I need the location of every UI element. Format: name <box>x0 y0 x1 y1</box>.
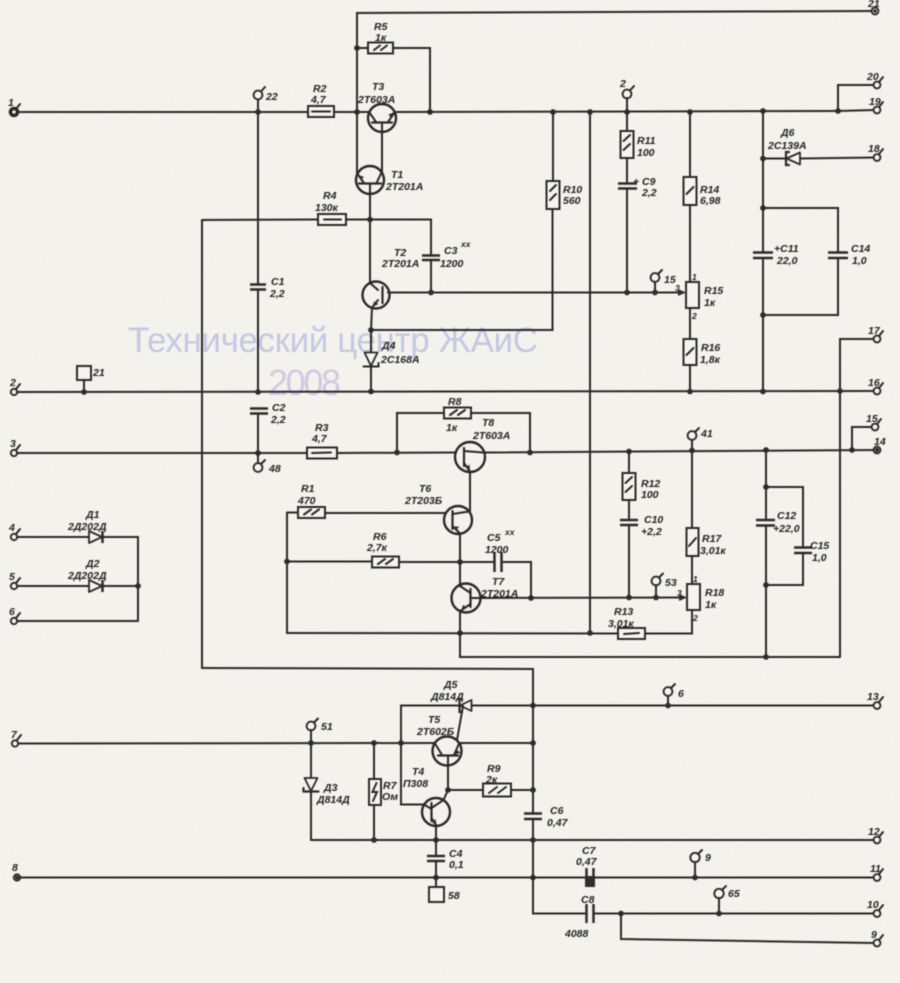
wire R3 to T8 <box>337 452 456 455</box>
pin 16 <box>868 377 883 394</box>
node junction bus1/C1 column <box>255 109 261 115</box>
resistor R11 <box>621 112 656 159</box>
svg-text:xx: xx <box>504 527 516 537</box>
wire C5 right riser <box>502 562 532 598</box>
svg-text:4,7: 4,7 <box>311 433 328 445</box>
transistor T7 2Т201А <box>452 576 519 613</box>
wire R14 to R15 <box>689 205 691 282</box>
svg-text:470: 470 <box>297 495 316 507</box>
node junction bus14 / R17 column <box>689 448 695 454</box>
transistor T6 2Т203Б <box>404 483 472 534</box>
svg-text:15: 15 <box>664 274 676 286</box>
pin 7 <box>11 729 21 747</box>
svg-text:Т5: Т5 <box>428 714 440 726</box>
pin 9 <box>871 929 883 946</box>
wire emitter bus657 <box>460 656 840 658</box>
wire T2 base wire y292 <box>388 292 683 294</box>
wire column x357 top <box>357 11 875 112</box>
svg-text:1,0: 1,0 <box>852 255 867 267</box>
wire R7 bottom <box>373 805 375 840</box>
svg-text:2к: 2к <box>485 774 498 786</box>
svg-text:3: 3 <box>10 438 16 450</box>
node junction C12 top branch <box>763 484 769 490</box>
svg-text:R15: R15 <box>704 285 723 297</box>
node junction T4 emitter / pin12 line <box>433 837 439 843</box>
wire pins 19 20 fork <box>838 85 874 111</box>
node junction R9 wire / x533 column <box>530 787 536 793</box>
pin 8 <box>12 862 20 881</box>
svg-text:17: 17 <box>868 325 881 337</box>
wire pin15 riser <box>852 427 872 450</box>
wire T4 emitter <box>435 826 437 841</box>
svg-text:2,2: 2,2 <box>270 414 286 426</box>
svg-text:2,7к: 2,7к <box>366 542 388 554</box>
node junction terminal9 / bus877 <box>692 875 698 881</box>
node junction R7 column / pin7 wire <box>371 740 377 746</box>
capacitor C11 <box>753 159 799 392</box>
wire R9 to column <box>511 789 533 791</box>
resistor R1 <box>287 483 325 518</box>
wire Д6 column upper <box>762 111 764 159</box>
wire bus877 left <box>20 877 586 879</box>
resistor R16 <box>684 308 721 392</box>
node junction C9 column / wiper wire <box>624 290 630 296</box>
wire diode block column <box>137 537 139 621</box>
node junction bus14 / C12 column <box>763 447 769 453</box>
svg-text:С12: С12 <box>777 510 796 522</box>
pin 20 <box>866 71 883 88</box>
node junction R5 column / bus1 <box>354 109 360 115</box>
svg-text:Ом: Ом <box>382 791 398 803</box>
pin 19 <box>869 96 883 113</box>
wire R2 to T3 <box>334 111 369 113</box>
svg-text:Д3: Д3 <box>323 782 338 794</box>
svg-text:22: 22 <box>265 91 278 103</box>
node junction bus1 / R11 column <box>624 109 630 115</box>
svg-text:4,7: 4,7 <box>310 94 327 106</box>
svg-text:Технический центр ЖАиС: Технический центр ЖАиС <box>128 321 538 360</box>
wire T2 emitter down <box>371 308 372 331</box>
resistor R10 <box>547 112 583 209</box>
wire pin7 to T5 base <box>18 742 435 745</box>
svg-text:2Д202Д: 2Д202Д <box>67 521 107 533</box>
node junction terminal15 / wiper wire <box>652 290 658 296</box>
wire line913 right <box>594 913 875 915</box>
node junction T2 emitter / R10 return wire <box>368 327 374 333</box>
svg-text:2,2: 2,2 <box>641 187 657 199</box>
svg-text:Т6: Т6 <box>419 483 431 495</box>
wire T8 emitter to T6 <box>469 472 471 511</box>
svg-text:Д6: Д6 <box>780 127 795 139</box>
svg-text:6: 6 <box>9 606 15 618</box>
resistor R4 <box>202 190 346 225</box>
pin 12 <box>868 826 883 843</box>
wire pin9 line <box>621 914 874 944</box>
node junction pin17 column / bus16 <box>837 388 843 394</box>
svg-text:2Т603А: 2Т603А <box>472 430 510 442</box>
resistor R17 <box>687 451 727 585</box>
pin 15 <box>866 413 881 430</box>
svg-text:+2,2: +2,2 <box>641 526 662 538</box>
terminal 22 <box>254 87 278 112</box>
svg-text:4088: 4088 <box>564 928 589 940</box>
node junction C5 riser / T7 wire <box>528 595 534 601</box>
resistor R3 <box>307 422 337 459</box>
svg-text:R16: R16 <box>701 342 720 354</box>
wire bus1 to pin 19 <box>838 110 874 111</box>
pin 14 <box>874 436 886 453</box>
svg-text:1к: 1к <box>705 599 717 611</box>
capacitor C2 <box>250 402 286 453</box>
node junction R8 right riser / collector wire <box>527 450 533 456</box>
node junction bus14 / R12 column <box>626 449 632 455</box>
svg-text:5: 5 <box>9 571 15 583</box>
svg-text:2: 2 <box>619 78 626 90</box>
capacitor C5 <box>485 527 516 572</box>
node junction C11 top <box>760 205 766 211</box>
wire pin12 line <box>311 839 875 841</box>
resistor R13 <box>608 606 645 639</box>
node junction bus1 / Д6 column <box>760 108 766 114</box>
transistor T1 2Т201А <box>356 166 423 194</box>
resistor R6 <box>287 531 399 568</box>
potentiometer R18 <box>677 574 724 623</box>
pin 13 <box>867 691 883 709</box>
svg-text:1200: 1200 <box>440 258 464 270</box>
node junction C4 / bus877 <box>433 875 439 881</box>
node junction Д3 column / pin7 wire <box>308 740 314 746</box>
svg-text:+22,0: +22,0 <box>773 523 800 535</box>
node junction x590 column / bus633 <box>587 630 593 636</box>
node junction line913 / pin9 drop <box>618 911 624 917</box>
wire T1 collector column <box>356 112 358 175</box>
svg-text:2: 2 <box>691 311 697 321</box>
node junction C12 bottom <box>763 582 769 588</box>
svg-text:2Т203Б: 2Т203Б <box>404 495 443 507</box>
node junction fork <box>835 108 841 114</box>
svg-text:4: 4 <box>8 522 15 534</box>
svg-text:51: 51 <box>321 721 333 733</box>
svg-text:С6: С6 <box>550 805 564 817</box>
svg-text:Т1: Т1 <box>391 169 403 181</box>
wire T4 base riser <box>401 743 424 805</box>
node junction C11 column / bus16 <box>760 389 766 395</box>
svg-text:9: 9 <box>705 852 711 864</box>
wire pin17 column <box>840 339 874 657</box>
wire column x202 down <box>201 220 203 668</box>
transistor T3 2Т603А <box>357 81 396 173</box>
wire R7 column <box>373 743 375 779</box>
wire x533 column section3 <box>532 706 534 814</box>
terminal 53 <box>652 574 677 598</box>
node junction T5 wire / x533 column <box>530 740 536 746</box>
pin 6 <box>9 606 20 624</box>
wire T1 emitter to R4 wire <box>369 194 371 220</box>
capacitor C3 <box>422 239 472 270</box>
svg-text:Т8: Т8 <box>482 417 494 429</box>
capacitor C9 <box>618 158 657 293</box>
svg-text:1: 1 <box>8 97 14 109</box>
svg-text:12: 12 <box>868 826 880 838</box>
svg-text:19: 19 <box>869 96 881 108</box>
capacitor C15 <box>766 487 829 585</box>
pin 21 <box>867 0 880 14</box>
svg-text:Д814Д: Д814Д <box>316 794 350 806</box>
svg-text:16: 16 <box>868 377 880 389</box>
node junction Д6 tap <box>760 156 766 162</box>
capacitor C12 <box>756 450 800 657</box>
resistor R9 <box>448 763 511 797</box>
terminal 21 square <box>77 366 105 395</box>
svg-text:2Т201А: 2Т201А <box>381 258 419 270</box>
pin 10 <box>867 899 883 917</box>
svg-text:xx: xx <box>460 239 472 249</box>
resistor R2 <box>308 83 334 117</box>
wire bus633 <box>287 632 618 635</box>
node junction Д2 / column <box>135 583 141 589</box>
node junction bus1 / R14 column <box>687 109 693 115</box>
wire R6 to C5 <box>399 561 494 563</box>
terminal 51 <box>307 719 333 744</box>
pin 17 <box>868 325 883 342</box>
svg-text:100: 100 <box>641 489 659 501</box>
node junction C2 / bus3 <box>255 450 261 456</box>
node junction terminal6 / wire <box>665 703 671 709</box>
svg-text:58: 58 <box>448 890 460 902</box>
terminal 65 <box>714 886 740 914</box>
svg-text:53: 53 <box>665 577 677 589</box>
node junction R8 left riser / bus3 <box>394 450 400 456</box>
node junction C1 column / bus16 <box>255 389 261 395</box>
svg-text:Д4: Д4 <box>381 340 396 352</box>
node junction T1 emitter / R4 wire <box>367 217 373 223</box>
node junction R5 riser / bus1 <box>427 109 433 115</box>
node junction C3 / base wire <box>428 290 434 296</box>
pin 11 <box>870 863 883 881</box>
svg-text:R8: R8 <box>448 396 462 408</box>
transistor T4 П308 <box>403 766 450 826</box>
svg-text:11: 11 <box>870 863 881 875</box>
wire T7 emitter down <box>459 611 461 658</box>
wire x533 column below C6 <box>532 819 534 878</box>
wire R1 to T6 base <box>325 512 446 514</box>
svg-text:2С168А: 2С168А <box>380 354 420 366</box>
wire T6 emitter to T7 <box>459 534 461 586</box>
svg-text:1: 1 <box>692 272 697 282</box>
wire R4 right to C3 column <box>346 220 431 256</box>
svg-text:1к: 1к <box>704 297 716 309</box>
svg-text:2,2: 2,2 <box>269 288 285 300</box>
svg-text:2: 2 <box>692 613 698 623</box>
node junction T7 emitter / bus633 <box>457 630 463 636</box>
resistor R5 <box>357 21 393 54</box>
svg-text:13: 13 <box>867 691 879 703</box>
resistor R8 <box>397 396 530 453</box>
wire T5 emitter down <box>447 766 449 791</box>
svg-text:2Т603А: 2Т603А <box>357 94 395 106</box>
svg-text:2С139А: 2С139А <box>767 140 807 152</box>
svg-text:R11: R11 <box>637 135 656 147</box>
svg-text:2Т201А: 2Т201А <box>385 181 423 193</box>
node junction bus657 / C12 column <box>763 654 769 660</box>
resistor R7 <box>369 779 398 805</box>
wire section3 feed y668 <box>202 668 533 706</box>
svg-text:С15: С15 <box>810 540 829 552</box>
svg-text:+С11: +С11 <box>774 243 799 255</box>
capacitor C10 <box>620 500 663 598</box>
node junction C11 bottom <box>760 312 766 318</box>
wire T5 collector slant to Д5 wire <box>457 706 463 740</box>
wire T5 right to column <box>459 742 533 744</box>
terminal 6 <box>664 684 684 706</box>
node junction x533 / bus877 <box>530 875 536 881</box>
node junction bus14 / pin15 riser <box>849 447 855 453</box>
node junction terminal53 / T7 wire <box>653 595 659 601</box>
svg-text:1,0: 1,0 <box>812 552 827 564</box>
diode Д4 2С168А zener <box>364 330 420 392</box>
capacitor C8 <box>564 894 595 940</box>
svg-text:100: 100 <box>637 147 655 159</box>
node junction R16 / bus16 <box>687 389 693 395</box>
wire bus877 right <box>594 877 875 879</box>
capacitor C1 <box>250 112 285 392</box>
svg-text:14: 14 <box>874 436 886 448</box>
wire long column x590 <box>589 112 591 633</box>
capacitor C7 <box>576 845 598 887</box>
svg-text:Д814Д: Д814Д <box>430 691 464 703</box>
wire line913 <box>533 878 586 914</box>
svg-text:130к: 130к <box>315 202 339 214</box>
svg-text:1200: 1200 <box>485 544 509 556</box>
node junction R6 left / riser <box>284 559 290 565</box>
wire T1 emitter to T2 top <box>369 220 371 284</box>
svg-text:С8: С8 <box>581 894 595 906</box>
potentiometer R15 <box>675 272 723 321</box>
svg-text:Т4: Т4 <box>412 766 424 778</box>
svg-text:1,8к: 1,8к <box>700 354 721 366</box>
wire R10 return y330 <box>371 209 553 330</box>
wire bus1 T3 to fork <box>395 111 838 112</box>
svg-text:Т7: Т7 <box>492 576 505 588</box>
wire Д5 left riser <box>400 706 402 744</box>
node junction terminal65 / line913 <box>716 911 722 917</box>
wire T5 emitter into T4 collector <box>444 790 449 800</box>
svg-text:1к: 1к <box>375 32 387 44</box>
node junction C10 bottom / T7 wire <box>626 595 632 601</box>
svg-text:R17: R17 <box>702 533 722 545</box>
terminal 58 square <box>429 878 460 903</box>
node junction R7 / pin12 line <box>371 837 377 843</box>
node junction R5 left <box>354 45 360 51</box>
svg-text:R13: R13 <box>614 606 633 618</box>
node junction Д5 wire / x533 column <box>530 703 536 709</box>
svg-text:21: 21 <box>867 0 880 10</box>
node junction bus1 / R10 column <box>550 109 556 115</box>
node junction T6 emitter / R6 wire <box>457 559 463 565</box>
capacitor C14 <box>763 208 870 315</box>
svg-text:R18: R18 <box>705 587 724 599</box>
capacitor C4 <box>427 840 464 878</box>
svg-text:С10: С10 <box>644 514 663 526</box>
diode Д2 2Д202Д <box>9 558 138 592</box>
terminal 41 <box>688 428 713 451</box>
svg-text:0,1: 0,1 <box>449 859 464 871</box>
svg-text:1к: 1к <box>446 422 458 434</box>
svg-text:9: 9 <box>871 929 877 941</box>
wire bus3 left <box>17 452 307 454</box>
svg-text:10: 10 <box>867 899 879 911</box>
diode Д3 Д814Д zener <box>304 743 351 840</box>
svg-text:3,01к: 3,01к <box>608 618 634 630</box>
svg-text:41: 41 <box>700 428 713 440</box>
node junction C6 column / pin12 line <box>530 837 536 843</box>
pin 2 <box>9 377 20 395</box>
transistor T2 2Т201А <box>363 247 420 309</box>
svg-text:18: 18 <box>868 143 880 155</box>
diode Д1 2Д202Д <box>8 509 138 543</box>
terminal 2 <box>619 78 634 112</box>
wire C3 to T2 base wire <box>430 260 432 293</box>
wire T8 collector to bus14 right <box>484 450 877 453</box>
svg-text:С5: С5 <box>487 532 501 544</box>
svg-text:6: 6 <box>678 688 684 700</box>
pin 18 <box>868 143 883 161</box>
svg-text:21: 21 <box>92 367 105 379</box>
svg-text:0,47: 0,47 <box>547 817 569 829</box>
node junction Д4 / bus16 <box>368 389 374 395</box>
svg-text:2: 2 <box>9 377 16 389</box>
svg-text:2Т602Б: 2Т602Б <box>416 726 455 738</box>
wire left riser x287 <box>286 513 288 634</box>
terminal 9 <box>690 850 711 878</box>
svg-text:R1: R1 <box>301 483 315 495</box>
wire bus16 full <box>17 391 877 392</box>
svg-text:Д2: Д2 <box>85 558 100 570</box>
resistor R14 <box>684 112 721 207</box>
svg-text:22,0: 22,0 <box>776 255 798 267</box>
svg-text:8: 8 <box>12 862 18 874</box>
terminal 48 <box>254 453 281 475</box>
capacitor C6 <box>524 805 569 829</box>
diode Д5 Д814Д <box>401 679 874 712</box>
svg-text:20: 20 <box>866 71 879 83</box>
node junction T5 emitter / R9 wire <box>445 787 451 793</box>
wire R5 right riser <box>393 48 430 112</box>
svg-text:Т3: Т3 <box>372 81 384 93</box>
svg-text:48: 48 <box>268 463 281 475</box>
svg-text:0,47: 0,47 <box>576 856 598 868</box>
svg-text:Д5: Д5 <box>443 679 458 691</box>
pin 1 <box>8 97 20 116</box>
svg-text:3,01к: 3,01к <box>700 545 726 557</box>
transistor T5 2Т602Б <box>416 714 462 766</box>
svg-text:6,98: 6,98 <box>700 195 721 207</box>
svg-text:15: 15 <box>866 413 878 425</box>
svg-text:2Д202Д: 2Д202Д <box>67 570 107 582</box>
svg-text:П308: П308 <box>403 778 428 790</box>
svg-text:560: 560 <box>563 195 581 207</box>
svg-text:1: 1 <box>693 574 698 584</box>
terminal 15 <box>651 270 676 293</box>
resistor R12 <box>623 452 661 502</box>
pin 3 <box>10 438 20 456</box>
transistor T8 2Т603А <box>455 417 510 472</box>
node junction bus1 / x590 column <box>587 109 593 115</box>
svg-text:С14: С14 <box>851 243 870 255</box>
node junction Д5 riser / pin7 wire <box>398 740 404 746</box>
wire bus1 left <box>17 111 308 113</box>
svg-text:Д1: Д1 <box>85 509 100 521</box>
